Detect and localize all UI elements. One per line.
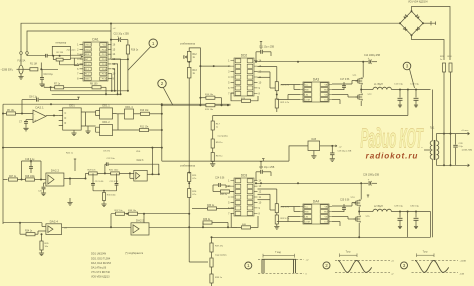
driver DA4 xyxy=(300,204,332,224)
resistor R31b xyxy=(275,215,278,224)
ground C10 xyxy=(39,84,44,87)
wire resistor pair ch1 xyxy=(276,91,278,99)
wire R39 xyxy=(211,267,213,274)
wire R16 down xyxy=(127,54,129,91)
output arrow top xyxy=(465,132,470,135)
svg-text:+U: +U xyxy=(113,28,116,30)
resistor R12 xyxy=(187,51,191,62)
svg-text:DA2.3: DA2.3 xyxy=(137,159,144,162)
resistor R24 xyxy=(449,63,452,72)
svg-text:+: + xyxy=(34,118,36,122)
capacitor C19 xyxy=(29,167,33,169)
bus corners DA1 right xyxy=(112,59,121,94)
sync resistor R37h xyxy=(111,213,189,215)
resistor R3 xyxy=(56,58,63,61)
svg-text:LO: LO xyxy=(324,99,327,101)
svg-text:RES: RES xyxy=(85,54,90,56)
wire bridge top rail xyxy=(412,7,451,61)
resistor R30 xyxy=(103,193,106,201)
wire gen to DA1 xyxy=(74,58,79,65)
waveform circle 2 xyxy=(323,262,330,269)
capacitor C12f xyxy=(92,173,94,183)
svg-text:R28 100к: R28 100к xyxy=(25,176,36,178)
gate DD1.2 xyxy=(100,125,113,136)
svg-text:ZQ1 имп: ZQ1 имп xyxy=(67,49,77,51)
wire rail ch2 xyxy=(256,182,363,184)
wire mains second xyxy=(27,31,111,56)
svg-text:3: 3 xyxy=(406,64,409,69)
resistor R29 xyxy=(89,172,98,175)
capacitor C12 xyxy=(399,90,401,98)
svg-text:стабилизатор: стабилизатор xyxy=(180,43,196,46)
svg-text:C8 0.1μ: C8 0.1μ xyxy=(29,96,38,98)
svg-text:R30 100к: R30 100к xyxy=(107,195,116,197)
svg-text:2: 2 xyxy=(161,81,164,86)
svg-text:Т кад: Т кад xyxy=(275,252,281,254)
svg-text:R27 1к: R27 1к xyxy=(9,176,17,178)
wire reg rail lower xyxy=(162,160,289,162)
wire R18 xyxy=(212,148,214,153)
wire load divider xyxy=(188,227,190,262)
wire DA25 out xyxy=(149,226,237,228)
resistor R11 xyxy=(140,128,149,131)
svg-text:HO: HO xyxy=(324,211,328,213)
wire rail to R16 xyxy=(111,58,128,60)
svg-text:R11 10к: R11 10к xyxy=(140,127,149,129)
op-amp DA2.2 xyxy=(46,173,64,186)
driver DA3 xyxy=(300,82,332,102)
inductor L1 xyxy=(373,87,391,89)
wire R37 xyxy=(211,237,213,243)
wire DA23 in2 xyxy=(130,177,134,179)
waveform 3 period xyxy=(417,253,435,257)
svg-text:DA2.4: DA2.4 xyxy=(50,219,59,223)
resistor R32 xyxy=(221,190,230,193)
svg-text:DD1.2: DD1.2 xyxy=(102,120,110,124)
resistor R26 xyxy=(188,189,191,198)
svg-text:OSC2: OSC2 xyxy=(85,49,92,51)
wire opamp out xyxy=(46,115,59,117)
node stab mid xyxy=(188,61,190,63)
svg-text:P1.1: P1.1 xyxy=(85,69,90,71)
wire gen out2 xyxy=(59,61,61,65)
ground R30 xyxy=(103,201,105,204)
svg-text:1к: 1к xyxy=(216,127,218,129)
svg-text:P3.5: P3.5 xyxy=(102,74,107,76)
svg-text:R12: R12 xyxy=(193,54,198,56)
regulator DA5 box xyxy=(308,141,320,151)
gate DD1.1 xyxy=(100,108,113,119)
svg-text:2: 2 xyxy=(325,263,328,268)
svg-text:DD1: DD1 xyxy=(69,103,75,107)
svg-text:+U: +U xyxy=(339,146,342,148)
svg-text:C22 10н: C22 10н xyxy=(107,158,116,160)
svg-text:DD2: DD2 xyxy=(241,54,248,58)
op-amp DA2.4 xyxy=(46,224,62,235)
svg-text:LIN: LIN xyxy=(305,94,309,96)
wire C24 R32 xyxy=(212,185,214,192)
svg-text:C14 1000μ 25В: C14 1000μ 25В xyxy=(364,55,380,57)
capacitor C13f xyxy=(116,173,118,183)
resistor R37 xyxy=(210,243,213,252)
capacitor C30 xyxy=(415,212,417,218)
output arrow bottom xyxy=(465,164,470,167)
wire net row87 xyxy=(44,86,55,88)
svg-text:HIN: HIN xyxy=(305,211,309,213)
inductor L2 xyxy=(373,209,391,211)
svg-text:4.7к: 4.7к xyxy=(192,194,196,196)
wire drive bus ch1 xyxy=(162,104,231,106)
svg-text:R5 10к: R5 10к xyxy=(7,110,15,112)
svg-text:C25 0.56: C25 0.56 xyxy=(340,200,350,202)
svg-text:R37 47к: R37 47к xyxy=(215,246,223,248)
svg-text:+U: +U xyxy=(306,259,309,261)
wire R36 xyxy=(202,223,204,228)
wire DA23 to reg rail xyxy=(151,148,153,175)
svg-text:R37 10к: R37 10к xyxy=(115,210,123,212)
+U cap C23 xyxy=(260,162,262,165)
wire R33 xyxy=(192,208,208,210)
wire DD2 supply xyxy=(255,52,257,61)
wire DD2 to resistors xyxy=(258,66,277,68)
svg-text:LIN: LIN xyxy=(305,216,309,218)
wire R34 xyxy=(35,233,38,235)
svg-text:COM: COM xyxy=(305,221,310,223)
svg-text:C17 0.56: C17 0.56 xyxy=(340,79,350,81)
wire rail310 ch1 xyxy=(256,61,363,63)
svg-text:DD1 LM324N: DD1 LM324N xyxy=(91,253,106,256)
counter DD3 DIP xyxy=(231,178,258,216)
wire feedback bottom xyxy=(3,222,42,224)
waveform circle 3 xyxy=(401,262,408,269)
pointer line 1 xyxy=(128,47,151,71)
wire R10 right xyxy=(150,113,162,115)
ground DA22 xyxy=(69,198,71,202)
wire half-bridge ch1 xyxy=(362,62,364,78)
svg-text:R7 1к: R7 1к xyxy=(54,84,61,86)
waveform 3 sine xyxy=(412,259,459,261)
capacitor C3 xyxy=(46,54,48,58)
resistor R16 xyxy=(127,40,129,45)
ground C7 xyxy=(25,123,27,128)
resistor R15 inline xyxy=(206,104,215,107)
svg-text:P3.0: P3.0 xyxy=(102,49,107,51)
svg-text:3: 3 xyxy=(403,263,406,268)
wire DD3 to resistors xyxy=(226,185,231,187)
wire DA23 out xyxy=(147,173,159,175)
wire stab bottom xyxy=(188,182,190,189)
svg-text:(*) подбирается: (*) подбирается xyxy=(125,252,144,255)
wire ch1 centre tap xyxy=(407,90,409,116)
resistor R18b divider xyxy=(211,153,214,162)
svg-text:VD5-VD8 КД213: VD5-VD8 КД213 xyxy=(91,275,110,278)
svg-text:VD1-VD4 КД202Н: VD1-VD4 КД202Н xyxy=(408,1,428,4)
wire caps bottom xyxy=(93,190,117,192)
svg-text:L1 35μН: L1 35μН xyxy=(374,84,383,86)
svg-text:10к: 10к xyxy=(45,246,48,248)
svg-text:DD1.4: DD1.4 xyxy=(125,105,133,109)
svg-text:+100В: +100В xyxy=(460,260,467,262)
wire R31 xyxy=(276,213,278,215)
svg-text:C13 0.56: C13 0.56 xyxy=(110,181,119,183)
wire DD2 bottom loop xyxy=(242,99,251,102)
svg-text:C12 0.5μ: C12 0.5μ xyxy=(394,83,404,85)
svg-text:P3.3: P3.3 xyxy=(102,64,107,66)
svg-text:P1.2: P1.2 xyxy=(85,74,90,76)
svg-text:-: - xyxy=(34,112,35,116)
wire DD3 supply xyxy=(255,172,257,181)
resistor R19b loop DD3 xyxy=(231,213,241,227)
mains terminal right xyxy=(423,22,431,24)
svg-text:R13: R13 xyxy=(193,70,198,72)
resistor R8 xyxy=(92,86,101,89)
node A xyxy=(40,68,42,70)
wire stab rail down xyxy=(188,62,190,68)
svg-text:R: R xyxy=(65,122,67,125)
svg-text:генератор: генератор xyxy=(56,43,67,45)
resistor R1 xyxy=(30,68,38,71)
svg-text:~220В 50Гц: ~220В 50Гц xyxy=(1,70,14,72)
svg-text:1к: 1к xyxy=(440,59,442,61)
counter DD2 DIP xyxy=(231,58,258,96)
svg-text:R19 1к: R19 1к xyxy=(216,156,223,158)
resistor R39 xyxy=(210,274,213,283)
svg-text:+U: +U xyxy=(64,228,67,230)
svg-text:GND: GND xyxy=(85,79,90,81)
wire reg out +U xyxy=(320,145,334,147)
resistor R21 xyxy=(275,99,278,108)
wire bus drop to reg rail xyxy=(161,105,163,161)
capacitor C26 bulk xyxy=(369,181,371,185)
resistor R20 xyxy=(275,82,278,91)
resistor R36 xyxy=(203,221,212,224)
svg-text:DA2.2: DA2.2 xyxy=(51,169,60,173)
waveform 2 period xyxy=(340,253,358,257)
svg-text:DD3: DD3 xyxy=(241,174,248,178)
zener VD5 xyxy=(184,56,187,59)
resistor R5 xyxy=(7,112,16,115)
svg-text:C24 0.56: C24 0.56 xyxy=(215,178,225,180)
+U label ch2 xyxy=(367,195,369,198)
svg-text:DA3, DA4 IR2153: DA3, DA4 IR2153 xyxy=(91,262,111,265)
svg-text:R29 47к: R29 47к xyxy=(88,169,96,171)
op-amp DA2.3 xyxy=(134,170,147,181)
svg-text:R1 1М: R1 1М xyxy=(30,63,37,65)
pointer line 2 xyxy=(163,88,173,106)
wire R35 xyxy=(41,234,43,241)
svg-text:DD1.1: DD1.1 xyxy=(102,104,110,108)
svg-text:R18 1к: R18 1к xyxy=(216,142,223,144)
resistor R33 xyxy=(208,207,217,210)
svg-text:DA2.5: DA2.5 xyxy=(136,218,145,222)
svg-text:+U вых: +U вых xyxy=(461,130,469,132)
svg-text:P3.2: P3.2 xyxy=(102,59,107,61)
waveform 2 sine xyxy=(335,259,390,261)
wire DA22 out xyxy=(64,178,86,180)
wire +U rail DA1 xyxy=(110,23,112,59)
wire bus y94 xyxy=(52,93,121,95)
resistor R18 divider xyxy=(211,139,214,148)
wire mid ch1 xyxy=(361,89,373,91)
node pointer circle 3 xyxy=(403,62,411,70)
node pointer circle 2 xyxy=(158,79,166,87)
svg-text:R36 4к: R36 4к xyxy=(203,219,211,221)
logic DD1 box xyxy=(63,108,81,130)
capacitor C29 xyxy=(399,212,401,218)
svg-text:LO: LO xyxy=(324,221,327,223)
wire DA4 inputs xyxy=(281,206,300,208)
svg-text:DA1 ATtiny26: DA1 ATtiny26 xyxy=(91,266,107,269)
wire opamp in xyxy=(2,113,4,115)
svg-text:R21 4.7к: R21 4.7к xyxy=(281,102,290,104)
wire T1 secondary bottom xyxy=(437,159,466,165)
wire left rail xyxy=(2,104,4,224)
wire half-bridge ch2 xyxy=(360,183,362,199)
svg-text:OSC1: OSC1 xyxy=(85,44,92,46)
svg-text:+U: +U xyxy=(391,260,394,262)
op-amp U DA1 controller DIP xyxy=(80,42,112,81)
svg-text:4.7к: 4.7к xyxy=(192,178,196,180)
svg-text:2.2μ: 2.2μ xyxy=(459,146,464,148)
svg-text:C29 0.5μ: C29 0.5μ xyxy=(394,205,404,207)
waveform circle 1 xyxy=(245,262,252,269)
wire divider row xyxy=(86,172,89,174)
svg-text:DA4: DA4 xyxy=(313,200,319,204)
svg-text:radiokot.ru: radiokot.ru xyxy=(366,152,419,161)
resistor R17 divider xyxy=(211,121,214,130)
resistor R7 xyxy=(55,86,64,89)
wire T1 secondary top xyxy=(437,134,439,141)
wire DA3 out xyxy=(332,83,352,85)
svg-text:C26 1000μ 25В: C26 1000μ 25В xyxy=(363,175,379,177)
capacitor C7 xyxy=(24,122,28,124)
op-amp DA2.1 xyxy=(33,110,46,123)
wire mid ch2 xyxy=(359,211,373,213)
op-amp DA2.5 comparator xyxy=(131,223,149,235)
wire bus y90 xyxy=(51,90,128,92)
svg-text:настройка: настройка xyxy=(218,135,229,138)
svg-text:подстройка: подстройка xyxy=(215,254,227,257)
wire stab to DD2 xyxy=(200,65,230,67)
svg-text:R10 10к: R10 10к xyxy=(140,110,149,112)
svg-text:DA2.1: DA2.1 xyxy=(35,106,44,110)
wire mains to gen xyxy=(27,55,46,57)
svg-text:±(15В-70В): ±(15В-70В) xyxy=(462,150,473,152)
svg-text:C9 47н: C9 47н xyxy=(103,151,111,153)
svg-text:C18 10μ x 25В: C18 10μ x 25В xyxy=(338,150,352,152)
capacitor C10 xyxy=(40,78,44,80)
svg-text:1: 1 xyxy=(247,263,250,268)
waveform 1 pulse xyxy=(258,258,304,260)
+U DA22 xyxy=(74,159,76,162)
svg-text:-10В: -10В xyxy=(460,273,465,275)
ground R18b xyxy=(210,164,215,167)
svg-text:R31 100к: R31 100к xyxy=(109,169,118,171)
svg-text:C30 0.5μ: C30 0.5μ xyxy=(410,205,420,207)
svg-text:R14 10к: R14 10к xyxy=(205,94,213,96)
wire gen mid xyxy=(47,55,70,57)
wire R1 to DA1 xyxy=(41,68,58,70)
svg-text:R34 1к: R34 1к xyxy=(25,231,33,233)
svg-text:L2 35μН: L2 35μН xyxy=(374,206,383,208)
svg-text:P3.4: P3.4 xyxy=(102,69,107,71)
wire C22 corner xyxy=(158,164,160,174)
ground DD1 xyxy=(73,130,75,132)
svg-text:Радио КОТ: Радио КОТ xyxy=(360,123,424,154)
svg-text:R33 1к: R33 1к xyxy=(207,205,215,207)
svg-text:C15 10μ x 25В: C15 10μ x 25В xyxy=(114,34,130,36)
wire DA24 in xyxy=(41,223,43,227)
resistor R28 xyxy=(26,178,35,181)
wire stab top corner xyxy=(189,48,200,105)
wire DA22 net xyxy=(18,179,26,181)
wire gate4 xyxy=(117,113,125,115)
svg-text:Тстр: Тстр xyxy=(346,251,351,253)
capacitor C8 xyxy=(22,99,36,101)
ground R31b xyxy=(274,227,279,230)
svg-text:стабилизатор: стабилизатор xyxy=(180,165,196,168)
capacitor C28 xyxy=(455,134,457,145)
wire T1 primary tap xyxy=(424,149,430,151)
wire gen row3 xyxy=(53,59,55,61)
wire L1 right xyxy=(391,89,430,91)
svg-text:C12 0.56: C12 0.56 xyxy=(95,181,104,183)
svg-text:DD2, DD3 TL594: DD2, DD3 TL594 xyxy=(91,257,111,260)
capacitor C18 xyxy=(331,146,333,153)
wire ch2 centre tap xyxy=(407,212,409,238)
svg-text:R2 1М: R2 1М xyxy=(57,52,64,54)
wire DA22 in xyxy=(3,179,8,181)
svg-text:R15 10к: R15 10к xyxy=(205,109,213,111)
wire out top xyxy=(438,133,465,135)
svg-text:Тстр: Тстр xyxy=(423,251,428,253)
resistor R38 xyxy=(210,258,213,267)
svg-text:FU1 5A: FU1 5A xyxy=(18,60,26,63)
connector pins xyxy=(20,52,23,55)
svg-text:HIN: HIN xyxy=(305,89,309,91)
resistor R35 xyxy=(40,241,43,250)
ground R35 xyxy=(39,253,44,256)
svg-text:C: C xyxy=(65,112,67,115)
fuse FU1 xyxy=(19,65,23,74)
wire L2 right xyxy=(391,211,430,213)
wire R17 xyxy=(212,116,214,122)
svg-text:DA1: DA1 xyxy=(92,38,98,42)
svg-text:DA5: DA5 xyxy=(311,138,316,141)
resistor R10 xyxy=(141,112,150,115)
capacitor C15 xyxy=(119,37,121,41)
sync resistor R38h xyxy=(129,212,138,215)
resistor R27 xyxy=(9,178,18,181)
wire DA24 out xyxy=(62,226,131,228)
gate DD1.4 xyxy=(125,109,134,119)
resistor R13 xyxy=(187,67,191,78)
wire T1 primary xyxy=(432,90,434,141)
resistor R25 xyxy=(188,173,191,182)
crystal ZQ1 xyxy=(70,55,81,58)
svg-text:R16 1к: R16 1к xyxy=(131,50,139,52)
svg-text:P3.6: P3.6 xyxy=(102,79,107,81)
node pointer circle 1 xyxy=(149,39,157,47)
resistor R14 bypass xyxy=(206,96,215,99)
resistor R23 xyxy=(443,63,446,72)
svg-text:R32 4к: R32 4к xyxy=(220,194,227,196)
ground DD-mid xyxy=(87,126,89,131)
resistor R31c xyxy=(111,172,120,175)
svg-text:D: D xyxy=(65,117,67,120)
svg-text:R39 1к: R39 1к xyxy=(215,277,222,279)
+U cap C11 xyxy=(260,42,262,45)
